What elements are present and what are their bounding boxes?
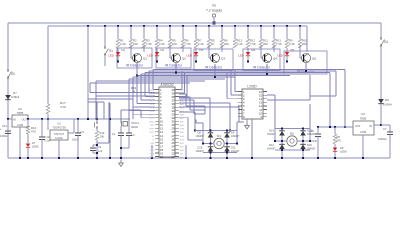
svg-text:16: 16 — [160, 141, 163, 145]
svg-text:COM: COM — [17, 123, 23, 127]
wire left rail upper — [7, 23, 9, 70]
svg-text:17: 17 — [160, 144, 163, 148]
svg-text:LED: LED — [109, 54, 114, 58]
svg-text:IR Detector: IR Detector — [205, 66, 223, 70]
svg-text:C3: C3 — [81, 130, 85, 134]
svg-text:C11: C11 — [2, 124, 7, 128]
wire drop x300 — [299, 26, 301, 39]
svg-text:24: 24 — [172, 144, 175, 148]
wire drop x287 — [286, 26, 288, 39]
svg-text:7.5K: 7.5K — [146, 42, 152, 46]
wire U5 pin to rail — [251, 119, 253, 158]
wire xtal to mcu c — [141, 117, 155, 119]
resistor R17 4.7K — [46, 104, 50, 114]
wire right rail mid — [380, 46, 382, 99]
svg-text:37: 37 — [172, 99, 175, 103]
resistor R5 at x209 — [207, 39, 211, 48]
wire into base Q1 — [131, 57, 133, 59]
wire U4 right pin 21 riser — [181, 71, 183, 90]
svg-text:4.7K: 4.7K — [60, 105, 66, 109]
svg-text:D3: D3 — [200, 48, 204, 52]
svg-text:D10: D10 — [198, 146, 203, 150]
svg-text:M2: M2 — [290, 132, 294, 136]
switch S1 — [104, 47, 106, 49]
svg-text:20K: 20K — [302, 42, 307, 46]
svg-text:D6: D6 — [385, 98, 389, 102]
junction +5 x42 — [41, 118, 43, 120]
svg-text:D12: D12 — [269, 143, 274, 147]
wire LED D3 lower — [195, 56, 197, 61]
svg-text:1K: 1K — [211, 42, 215, 46]
junction bus x183 — [182, 25, 184, 27]
wire drop to U5 pin 2 — [230, 71, 232, 95]
svg-text:1/2AAF: 1/2AAF — [55, 137, 63, 140]
junction bus x287 — [286, 25, 288, 27]
svg-text:15: 15 — [259, 93, 262, 97]
svg-text:S4: S4 — [384, 40, 388, 44]
diode D7 1N914 — [5, 95, 11, 100]
wire U3 IN — [374, 124, 381, 126]
capacitor C3 100nF — [77, 119, 79, 133]
transistor Q1 — [133, 54, 142, 63]
IR detector module box 2 — [156, 48, 191, 68]
svg-text:1N4007: 1N4007 — [196, 150, 205, 153]
wire top supply bus — [8, 22, 381, 24]
wire rail x88 — [87, 26, 89, 119]
svg-text:1N4007: 1N4007 — [267, 133, 276, 136]
wire to LED D5 — [286, 48, 288, 52]
regulator U2 7805 — [12, 115, 28, 127]
svg-text:13: 13 — [259, 101, 262, 105]
resistor R16 470 — [27, 119, 29, 126]
svg-text:ALE: ALE — [180, 124, 185, 127]
junction U4 right — [185, 157, 187, 159]
transistor Q4 — [263, 54, 272, 63]
svg-text:7.5K: 7.5K — [185, 42, 191, 46]
svg-text:28: 28 — [172, 130, 175, 134]
wire U4 mid jog 2a — [179, 96, 190, 98]
wire base drop Q1 — [130, 45, 132, 58]
svg-text:D9: D9 — [231, 131, 235, 135]
wire into U5 pin 1 — [235, 91, 242, 93]
wire signal bus row y77 — [133, 76, 235, 78]
wire detector output x215 — [214, 64, 216, 77]
wire signal bus row y74 — [141, 73, 310, 75]
wire U5 outputs to M1 — [202, 123, 204, 131]
svg-text:C8: C8 — [310, 129, 314, 133]
wire base drop Q4 — [260, 45, 262, 58]
svg-text:22: 22 — [172, 151, 175, 155]
U4 pin stubs — [155, 89, 159, 91]
svg-text:10: 10 — [259, 111, 262, 115]
wire signal bus row y71 — [149, 70, 336, 72]
wire signal bus row y81 — [96, 80, 205, 82]
microcontroller U4 AT89C52 — [159, 87, 175, 157]
svg-text:Q3: Q3 — [221, 57, 225, 61]
wire U1 gnd — [58, 140, 60, 158]
svg-text:40: 40 — [172, 88, 175, 92]
wire U4 mid jog 3a — [179, 99, 194, 101]
wire feeder corner x149 — [148, 71, 150, 93]
resistor R9 at x287 — [285, 39, 289, 48]
svg-text:P1.5: P1.5 — [150, 108, 155, 110]
IR receiver U1 TSOP1738 — [50, 130, 68, 140]
svg-text:LED8: LED8 — [340, 150, 347, 154]
wire drop x118 — [117, 26, 119, 39]
junction bus x196 — [195, 25, 197, 27]
svg-text:33: 33 — [172, 113, 175, 117]
svg-text:P1.6: P1.6 — [150, 111, 155, 113]
svg-text:P1.7: P1.7 — [150, 115, 155, 117]
resistor R12 at x248 — [246, 39, 250, 48]
svg-text:1N4007: 1N4007 — [267, 147, 276, 150]
junction bus x170 — [169, 25, 171, 27]
motor M2 circle — [287, 136, 297, 146]
wire M1 outer right — [236, 131, 238, 144]
wire M1 diode column right — [226, 131, 228, 153]
wire LED D4 lower — [247, 56, 249, 61]
svg-text:C7: C7 — [383, 127, 387, 131]
junction bus x105 — [104, 25, 106, 27]
wire left verticals to lower area — [95, 96, 97, 119]
svg-text:1N4007: 1N4007 — [307, 133, 316, 136]
wire U4 right pin 23 out — [179, 96, 187, 98]
resistor R6 at x222 — [220, 39, 224, 48]
wire feeder corner x137 — [136, 76, 138, 104]
resistor R6 at x183 — [181, 39, 185, 48]
junction detector output x306 — [305, 70, 307, 72]
svg-text:C4: C4 — [98, 145, 102, 149]
wire drop x209 — [208, 26, 210, 39]
wire into U5 pin 3 — [227, 98, 242, 100]
svg-text:P1.4: P1.4 — [150, 104, 155, 106]
svg-text:39: 39 — [172, 92, 175, 96]
svg-text:U3: U3 — [361, 112, 365, 116]
wire feeder into U4 pin y110.6 — [129, 110, 155, 112]
svg-text:16: 16 — [259, 90, 262, 94]
wire reset column — [96, 102, 98, 121]
wire M2 diode column left — [281, 129, 283, 151]
wire U4 mid jog 1b — [185, 94, 187, 106]
svg-text:1K: 1K — [132, 90, 136, 94]
junction bus x88 — [87, 25, 89, 27]
svg-text:2.2K: 2.2K — [198, 42, 204, 46]
junction +5 x28 — [27, 118, 29, 120]
wire to LED D4 — [247, 48, 249, 52]
svg-text:10K: 10K — [172, 42, 177, 46]
wire signal bus row y79 — [129, 78, 225, 80]
svg-text:IR Detector: IR Detector — [165, 64, 183, 68]
LED D3 — [194, 52, 198, 56]
wire drop x170 — [169, 26, 171, 39]
svg-text:C12: C12 — [45, 135, 50, 139]
junction +5 x97 — [96, 118, 98, 120]
wire into base Q5 — [300, 57, 302, 59]
svg-text:S0: S0 — [11, 72, 15, 76]
wire signal bus row y69.5 — [153, 69, 345, 71]
wire drop x131 — [130, 26, 132, 39]
wire collector drop Q1 — [143, 45, 145, 52]
svg-text:2.2K: 2.2K — [237, 42, 243, 46]
wire signal bus row y72.5 — [145, 72, 330, 74]
wire detector output x176 — [175, 63, 177, 73]
transistor Q5 — [302, 54, 311, 63]
ground bottom center — [120, 160, 122, 164]
junction +5 x88 — [87, 118, 89, 120]
wire vert x205 mid — [204, 106, 206, 114]
wire M2 top rail — [275, 128, 310, 130]
svg-text:WR: WR — [150, 143, 154, 145]
wire signal bus row y83 — [90, 82, 190, 84]
svg-text:R19: R19 — [100, 131, 105, 135]
wire feeder into U4 pin y100 — [141, 99, 155, 101]
wire drop x222 — [221, 26, 223, 39]
wire S1 drop — [104, 26, 106, 47]
diode D14 — [279, 131, 285, 136]
svg-text:14: 14 — [160, 134, 163, 138]
svg-text:L293D: L293D — [247, 85, 257, 89]
svg-text:4MHz: 4MHz — [131, 125, 139, 129]
wire U5 gnd — [246, 119, 248, 122]
svg-text:LED: LED — [239, 54, 244, 58]
svg-text:TXD: TXD — [150, 125, 155, 127]
svg-text:1N4007: 1N4007 — [196, 135, 205, 138]
svg-text:IN: IN — [369, 124, 372, 128]
wire U4 mid jog 3c — [194, 113, 205, 115]
IR detector module box 1 — [117, 48, 152, 68]
resistor R4 at x157 — [155, 39, 159, 48]
junction U4 gnd left — [151, 157, 153, 159]
wire detector output x267 — [266, 64, 268, 74]
wire LED D1 lower — [117, 56, 119, 61]
svg-text:D5: D5 — [291, 48, 295, 52]
wire M2 diode column right — [302, 129, 304, 151]
svg-text:P1.3: P1.3 — [150, 101, 155, 103]
resistor R1 at x118 — [116, 39, 120, 48]
svg-text:IN: IN — [13, 118, 16, 122]
junction +5 x48 — [47, 118, 49, 120]
wire collector drop Q4 — [273, 45, 275, 52]
wire M2 bottom rail — [275, 149, 310, 151]
wire U4 right pin 21 out — [179, 89, 182, 91]
svg-text:470: 470 — [31, 130, 36, 134]
capacitor C8 0.22uF — [317, 127, 319, 133]
svg-text:7.2 Supply: 7.2 Supply — [206, 9, 222, 13]
svg-text:D14: D14 — [269, 129, 274, 133]
resistor R5 at x170 — [168, 39, 172, 48]
wire stairs U4 to motors — [179, 97, 210, 99]
svg-text:0.22uF: 0.22uF — [309, 139, 317, 143]
junction bus x248 — [247, 25, 249, 27]
wire right jog a — [310, 95, 336, 97]
LED D5 — [285, 52, 289, 56]
wire M1 bottom rail — [203, 152, 237, 154]
supply terminal symbol — [212, 14, 215, 17]
wire M2 outer left — [274, 129, 276, 142]
wire to LED D3 — [195, 48, 197, 52]
wire inner supply bus — [48, 25, 307, 27]
svg-text:P1.1: P1.1 — [150, 94, 155, 96]
junction bus x300 — [299, 25, 301, 27]
svg-text:1uF: 1uF — [98, 149, 103, 153]
junction bus x222 — [221, 25, 223, 27]
svg-text:34: 34 — [172, 109, 175, 113]
svg-text:32: 32 — [172, 116, 175, 120]
wire drop x196 — [195, 26, 197, 39]
junction detector output x267 — [266, 73, 268, 75]
svg-text:D15: D15 — [307, 143, 312, 147]
junction bus x131 — [130, 25, 132, 27]
resistor R10 at x300 — [298, 39, 302, 48]
wire U4 right pin 23 riser — [186, 75, 188, 97]
svg-text:470: 470 — [337, 139, 342, 143]
svg-text:2.2K: 2.2K — [120, 42, 126, 46]
wire M2 mid right — [298, 140, 310, 142]
junction bus x261 — [260, 25, 262, 27]
svg-text:23: 23 — [172, 148, 175, 152]
wire xtal to mcu a — [121, 109, 133, 111]
svg-text:INT0: INT0 — [149, 129, 155, 131]
wire +5V rail — [28, 118, 130, 120]
svg-text:36: 36 — [172, 102, 175, 106]
svg-text:M1: M1 — [217, 134, 221, 138]
wire U4 right pin 22 riser — [184, 73, 186, 93]
svg-text:PSE: PSE — [180, 129, 185, 131]
wire M2 mid left — [275, 140, 286, 142]
capacitor C12 — [41, 119, 43, 137]
svg-text:7805: 7805 — [17, 111, 24, 115]
svg-text:D1: D1 — [122, 48, 126, 52]
svg-text:7.5K: 7.5K — [250, 42, 256, 46]
wire drop to U5 pin 1 — [234, 69, 236, 92]
diode D9 — [224, 133, 230, 138]
svg-text:1N4007: 1N4007 — [307, 147, 316, 150]
svg-text:D7: D7 — [32, 141, 36, 145]
LED D4 — [246, 52, 250, 56]
junction +5 x110 — [109, 118, 111, 120]
wire M1 diode column left — [210, 131, 212, 153]
junction bus x209 — [208, 25, 210, 27]
svg-text:20K: 20K — [224, 42, 229, 46]
wire M2 outer right — [309, 129, 311, 142]
diode D10 — [208, 147, 214, 152]
wire into U2 IN — [8, 118, 12, 120]
wire U4 right col to rail — [185, 145, 187, 158]
svg-text:1N4007: 1N4007 — [231, 135, 240, 138]
wire LED D2 lower — [156, 56, 158, 61]
wire U4 mid jog 2c — [190, 109, 205, 111]
resistor R7 at x196 — [194, 39, 198, 48]
svg-text:U1: U1 — [57, 122, 61, 126]
svg-text:2.2K: 2.2K — [159, 42, 165, 46]
svg-text:21: 21 — [172, 155, 175, 159]
svg-text:20K: 20K — [263, 42, 268, 46]
diode D15 — [300, 145, 306, 150]
wire x345 drop — [344, 70, 346, 128]
svg-text:VCC: VCC — [180, 90, 185, 92]
junction detector output x176 — [175, 72, 177, 74]
wire feeder into U4 pin y107.1 — [133, 106, 155, 108]
svg-text:10: 10 — [160, 120, 163, 124]
svg-text:AT89C52: AT89C52 — [160, 83, 173, 87]
IR detector module box 3 — [194, 49, 233, 70]
svg-text:38: 38 — [172, 95, 175, 99]
IR detector module box 4 — [243, 49, 280, 70]
wire M1 outer left — [202, 131, 204, 144]
wire U3 COM to gnd — [362, 135, 364, 158]
wire U4 right pin 22 out — [179, 92, 185, 94]
wire M1 mid left — [203, 143, 213, 145]
junction bus x144 — [143, 25, 145, 27]
wire LED D5 lower — [286, 56, 288, 61]
junction detector output x215 — [214, 76, 216, 78]
IR detector module box 5 — [284, 51, 327, 74]
wire U3 OUT rail — [318, 126, 353, 128]
switch S0 — [7, 70, 9, 72]
LED D9 LED8 — [333, 148, 337, 152]
capacitor C2 33pF — [126, 132, 132, 134]
svg-text:31: 31 — [172, 120, 175, 124]
svg-text:D4: D4 — [252, 48, 256, 52]
svg-text:OUT: OUT — [22, 118, 28, 122]
wire to C7 — [381, 124, 390, 126]
wire detector output x306 — [305, 63, 307, 71]
wire reset right branch — [108, 102, 110, 143]
wire U1 vcc — [47, 119, 49, 130]
svg-text:INT1: INT1 — [149, 132, 155, 134]
diode D13 — [300, 131, 306, 136]
transistor Q2 — [172, 54, 181, 63]
svg-text:1N4007: 1N4007 — [231, 150, 240, 153]
capacitor C11 1000uF — [5, 130, 11, 132]
junction bus x274 — [273, 25, 275, 27]
wire U4 mid jog 2b — [189, 97, 191, 110]
junction detector output x137 — [136, 75, 138, 77]
capacitor C4 1uF — [90, 147, 96, 149]
regulator U3 7805 — [353, 121, 374, 135]
svg-text:1000uF: 1000uF — [378, 137, 387, 141]
svg-text:RD: RD — [151, 146, 155, 148]
U5 pin stubs — [238, 91, 242, 93]
wire drop x235 — [234, 26, 236, 39]
wire bottom ground rail — [8, 157, 390, 159]
resistor R19 10K — [96, 128, 98, 131]
svg-text:7.5K: 7.5K — [276, 42, 282, 46]
wire right rail upper — [380, 23, 382, 38]
svg-text:D9: D9 — [340, 146, 344, 150]
wire U4 mid jog 1a — [179, 93, 186, 95]
wire into base Q2 — [170, 57, 172, 59]
svg-text:D11: D11 — [231, 146, 236, 150]
svg-text:Q5: Q5 — [312, 57, 316, 61]
wire collector drop Q3 — [221, 45, 223, 52]
wire drop x274 — [273, 26, 275, 39]
wire feeder into U4 pin y96.5 — [145, 96, 155, 98]
svg-text:TSOP1738: TSOP1738 — [52, 126, 66, 130]
junction +5 x78 — [77, 118, 79, 120]
svg-text:RST: RST — [150, 118, 155, 120]
wire left feeders — [95, 81, 97, 96]
wire M1 mid right — [225, 143, 237, 145]
junction supply on top bus — [213, 22, 216, 25]
resistor R3 at x144 — [142, 39, 146, 48]
wire reset lines — [88, 98, 133, 100]
svg-text:P1.0: P1.0 — [150, 90, 155, 92]
wire right rail to regulator — [380, 104, 382, 125]
wire feeder corner x129 — [128, 79, 130, 111]
svg-text:13: 13 — [160, 130, 163, 134]
svg-text:XTAL1: XTAL1 — [131, 121, 140, 125]
